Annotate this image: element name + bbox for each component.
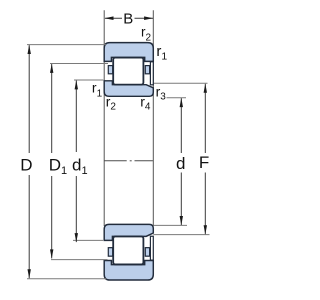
extension line D1 top bbox=[50, 63, 108, 65]
cage bar bottom-left bbox=[108, 248, 112, 257]
extension line D top bbox=[27, 44, 106, 46]
svg-text:d: d bbox=[176, 154, 185, 173]
inner ring top bbox=[104, 81, 153, 97]
dimension D1 vertical bbox=[50, 64, 53, 259]
extension line F bottom bbox=[153, 234, 209, 236]
loose flange washer top bbox=[150, 62, 153, 85]
dimension d vertical bbox=[180, 98, 183, 225]
svg-text:F: F bbox=[199, 153, 209, 172]
extension line D bottom bbox=[27, 278, 107, 280]
extension line F top bbox=[154, 82, 208, 84]
cage bar bottom-right bbox=[145, 248, 149, 257]
extension line d bottom bbox=[154, 224, 187, 226]
dimension D vertical bbox=[28, 45, 31, 279]
roller bottom bbox=[113, 236, 143, 264]
extension line d1 bottom bbox=[73, 239, 103, 241]
top bearing half bbox=[104, 43, 153, 97]
outer ring bottom bbox=[104, 261, 153, 280]
loose flange washer bottom bbox=[150, 236, 153, 260]
node centerline bbox=[104, 160, 153, 162]
bottom bearing half (mirror about y=160.8) bbox=[104, 224, 153, 280]
dimension F vertical bbox=[204, 84, 207, 235]
inner ring bottom bbox=[104, 224, 153, 240]
cage bar top-right bbox=[145, 66, 149, 74]
dimension B bbox=[105, 16, 154, 20]
outer ring top bbox=[104, 43, 153, 62]
extension line d top (r3 leader) bbox=[167, 97, 187, 99]
wire: right vertical face extension line x=153.3 bbox=[152, 10, 154, 226]
wire: left vertical face extension line x=104.2 bbox=[103, 10, 105, 226]
extension line d1 top bbox=[74, 79, 103, 81]
svg-text:B: B bbox=[123, 11, 133, 28]
dimension d1 vertical bbox=[75, 80, 78, 242]
svg-text:D: D bbox=[20, 155, 32, 174]
cage bar top-left bbox=[108, 66, 112, 74]
roller top bbox=[113, 58, 143, 85]
extension line D1 bottom bbox=[51, 259, 108, 261]
